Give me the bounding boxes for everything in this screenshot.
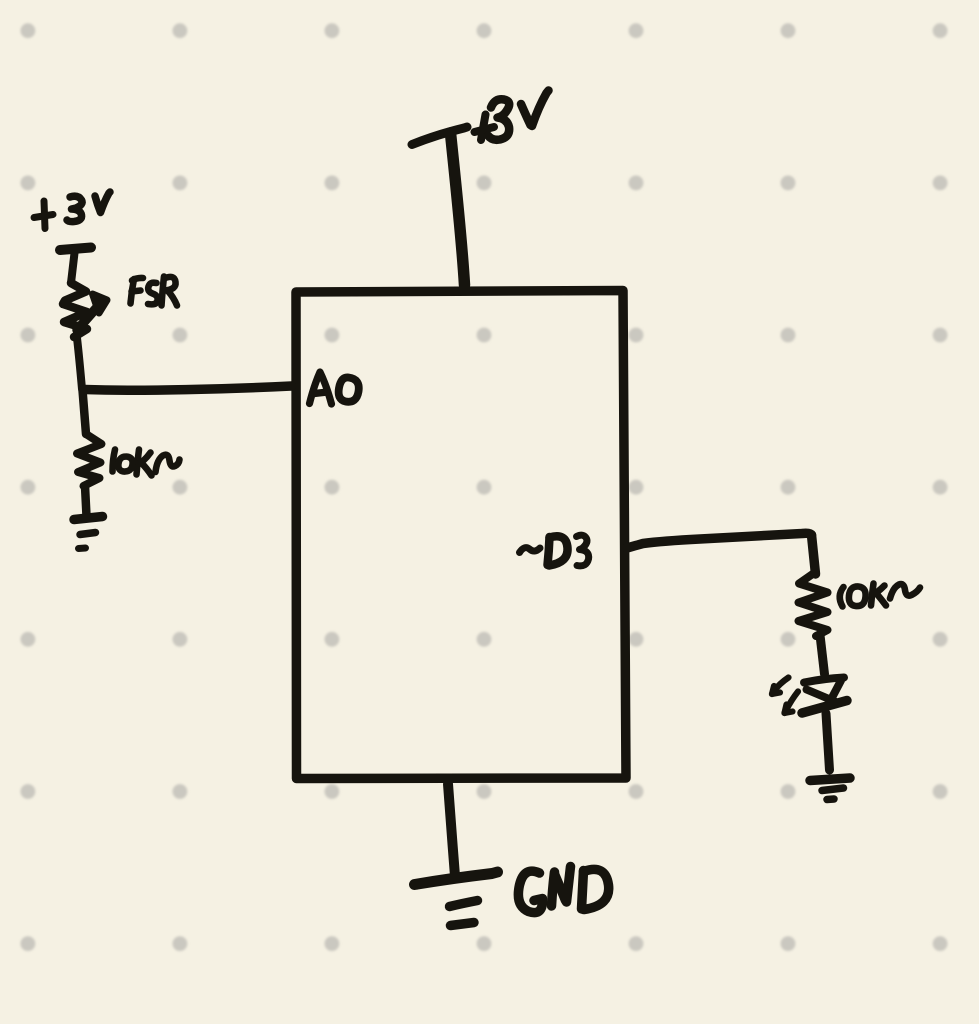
LED emission arrow 1	[772, 678, 789, 695]
label FSR	[131, 277, 178, 306]
wire +3V top to board	[451, 133, 465, 285]
label GND	[518, 867, 608, 913]
LED D1: cathode bar	[802, 701, 847, 714]
wire bar to FSR	[71, 253, 75, 283]
label ~D3 (pin)	[520, 535, 589, 566]
node / wire to pin A0	[85, 386, 292, 390]
wire corner down to resistor R2	[812, 535, 816, 574]
ground (bottom)	[415, 872, 498, 926]
label +3V (left)	[34, 192, 110, 229]
power rail +3V top: bar	[412, 127, 467, 145]
power bar +3V left	[60, 248, 91, 251]
label 10K (left)	[113, 450, 180, 476]
wire resistor R2 to LED	[820, 635, 825, 674]
resistor R1 10K (left zigzag)	[77, 434, 102, 486]
LED D1: anode bar	[804, 678, 844, 683]
resistor R2 10K (right zigzag)	[799, 572, 828, 636]
label A0 (pin)	[310, 372, 359, 404]
FSR resistor (zigzag)	[63, 283, 87, 337]
wire pin ~D3 to corner	[627, 533, 812, 548]
FSR arrow	[77, 305, 99, 330]
wire FSR to node	[77, 338, 82, 389]
wire resistor to ground	[85, 486, 87, 516]
wire node to resistor R1	[83, 390, 87, 434]
label +3V (top)	[475, 91, 549, 141]
microcontroller board U1	[296, 291, 626, 779]
wire board to ground (bottom)	[448, 784, 455, 876]
label 10K (right)	[840, 584, 920, 607]
ground (left)	[74, 517, 103, 549]
LED D1: triangle	[807, 690, 836, 702]
wire LED to ground	[826, 714, 830, 771]
ground (right)	[810, 778, 850, 800]
LED emission arrow 2	[785, 692, 799, 714]
